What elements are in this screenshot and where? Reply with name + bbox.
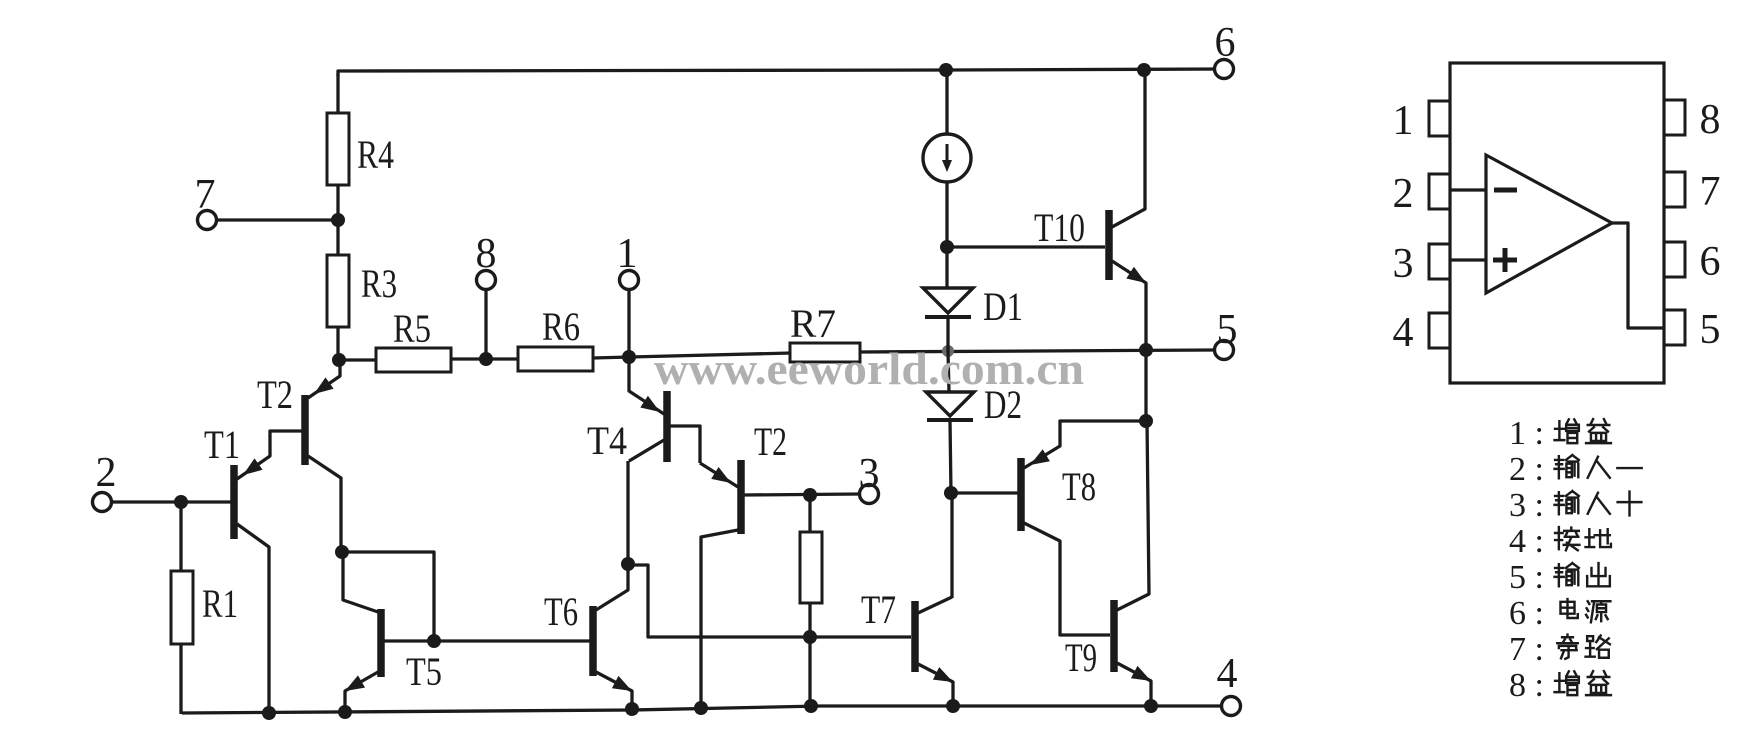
transistor T8 bar bbox=[1017, 458, 1025, 531]
wire mid rail segment B bbox=[451, 357, 519, 360]
wire T8 base bbox=[951, 491, 1018, 494]
svg-text:R6: R6 bbox=[542, 304, 580, 349]
op-amp output wire bbox=[1612, 223, 1664, 328]
svg-text:6: 6 bbox=[1215, 20, 1236, 66]
node D1 / T10 base bbox=[940, 240, 954, 254]
transistor T7 emitter bbox=[918, 664, 953, 707]
node T8 emitter / output rail bbox=[1139, 414, 1153, 428]
node R2 / T7 base line bbox=[803, 630, 817, 644]
label T9 bbox=[1065, 635, 1097, 680]
terminal 7 wire bbox=[216, 218, 338, 221]
label T1 bbox=[204, 422, 240, 467]
svg-text:R5: R5 bbox=[393, 306, 431, 351]
label T8 bbox=[1062, 464, 1096, 509]
node top rail / current source bbox=[939, 63, 953, 77]
IC pin 3 label bbox=[1393, 241, 1414, 287]
transistor T2 emitter bbox=[308, 360, 340, 398]
IC pin 6 tab bbox=[1664, 242, 1685, 277]
node ground/T5 emitter bbox=[338, 705, 352, 719]
svg-text:T6: T6 bbox=[544, 589, 578, 634]
IC pin 4 label bbox=[1393, 310, 1414, 356]
transistor T9 emitter bbox=[1117, 663, 1151, 707]
wire mid rail segment A bbox=[339, 358, 377, 361]
node terminal3 / R2 bbox=[803, 488, 817, 502]
svg-text:4: 4 bbox=[1217, 651, 1238, 697]
svg-text:7 :: 7 : bbox=[1509, 631, 1544, 668]
node top rail / T10 collector bbox=[1137, 63, 1151, 77]
IC pin 1 tab bbox=[1429, 101, 1450, 136]
resistor R2 (unlabeled) bbox=[800, 532, 822, 603]
op-amp inverting input lead bbox=[1450, 188, 1486, 191]
svg-text:T5: T5 bbox=[406, 649, 442, 694]
IC pin 8 label bbox=[1700, 97, 1721, 143]
svg-text:8: 8 bbox=[476, 231, 497, 277]
svg-text:8: 8 bbox=[1700, 97, 1721, 143]
transistor T7 collector bbox=[918, 597, 952, 613]
legend line pin 4 bbox=[1509, 523, 1611, 560]
transistor T1 collector bbox=[237, 524, 269, 713]
label T6 bbox=[544, 589, 578, 634]
wire terminal 1 stub bbox=[627, 289, 630, 357]
op-amp triangle bbox=[1486, 155, 1612, 293]
wire T5-T6 base link bbox=[384, 639, 590, 642]
transistor T2 (second) emitter bbox=[700, 463, 738, 487]
label R5 bbox=[393, 306, 431, 351]
svg-text:3: 3 bbox=[1393, 241, 1414, 287]
legend line pin 3 bbox=[1509, 487, 1641, 524]
label T5 bbox=[406, 649, 442, 694]
node T2 collector / T5 bbox=[335, 545, 349, 559]
label D1 bbox=[983, 284, 1023, 329]
svg-text:T2: T2 bbox=[257, 372, 293, 417]
transistor T6 collector bbox=[596, 565, 628, 610]
svg-text:7: 7 bbox=[195, 172, 216, 218]
wire D1 to mid rail bbox=[946, 317, 949, 352]
transistor T10 bar bbox=[1105, 210, 1113, 280]
label 5 bbox=[1217, 307, 1238, 353]
label T2 (second) bbox=[754, 419, 787, 464]
node T5 base bbox=[427, 634, 441, 648]
terminal 1 circle bbox=[620, 271, 639, 290]
transistor T10 emitter bbox=[1112, 261, 1146, 350]
transistor T2 (second) collector bbox=[701, 530, 738, 708]
transistor T10 collector bbox=[1112, 70, 1145, 227]
label R1 bbox=[202, 581, 238, 626]
legend line pin 7 bbox=[1509, 631, 1610, 668]
wire R2 top lead bbox=[808, 495, 811, 533]
label 2 bbox=[96, 450, 117, 496]
wire node to D1 bbox=[945, 247, 948, 289]
label 3 bbox=[859, 451, 880, 497]
wire mid rail to D2 bbox=[948, 351, 949, 392]
svg-text:4: 4 bbox=[1393, 310, 1414, 356]
wire R1 top lead bbox=[179, 502, 182, 572]
svg-text:3 :: 3 : bbox=[1509, 487, 1544, 524]
svg-text:T2: T2 bbox=[754, 419, 787, 464]
wire bottom ground rail bbox=[182, 706, 1222, 713]
label T7 bbox=[861, 587, 896, 632]
wire top rail to R4 bbox=[336, 74, 339, 114]
svg-text:1: 1 bbox=[1393, 98, 1414, 144]
legend line pin 8 bbox=[1509, 667, 1611, 704]
node mid rail / diode string bbox=[942, 345, 954, 357]
wire R3 to mid rail bbox=[336, 327, 339, 361]
transistor T6 bar bbox=[589, 606, 597, 676]
legend line pin 2 bbox=[1509, 451, 1642, 488]
transistor T1 emitter bbox=[237, 431, 302, 479]
IC pin 5 label bbox=[1700, 307, 1721, 353]
current source I1 arrow bbox=[942, 144, 952, 172]
label 7 bbox=[195, 172, 216, 218]
wire T5 base jog bbox=[342, 552, 434, 641]
wire pin2 to T1 base bbox=[112, 500, 231, 503]
terminal 6 circle bbox=[1215, 60, 1234, 79]
terminal 3 circle bbox=[860, 485, 879, 504]
legend line pin 1 bbox=[1509, 415, 1611, 452]
wire T6 node jog to base line bbox=[628, 565, 911, 637]
IC pin 7 label bbox=[1700, 169, 1721, 215]
resistor R1 bbox=[171, 571, 193, 644]
resistor R4 bbox=[327, 113, 349, 185]
transistor T6 emitter bbox=[596, 672, 632, 709]
diode D1 bbox=[923, 288, 973, 317]
label T2 bbox=[257, 372, 293, 417]
node ground/T1 collector bbox=[262, 706, 276, 720]
transistor T7 bar bbox=[911, 601, 919, 672]
label 1 bbox=[617, 231, 638, 277]
label 8 bbox=[476, 231, 497, 277]
wire D2 to T8 base node bbox=[950, 420, 951, 494]
svg-text:T9: T9 bbox=[1065, 635, 1097, 680]
transistor T2 (second) bar bbox=[737, 460, 745, 534]
node pin2/R1 bbox=[174, 495, 188, 509]
IC pin 7 tab bbox=[1664, 172, 1685, 207]
svg-text:T4: T4 bbox=[587, 418, 627, 463]
svg-text:T7: T7 bbox=[861, 587, 896, 632]
label R3 bbox=[361, 261, 397, 306]
IC package body bbox=[1450, 63, 1664, 383]
label 4 bbox=[1217, 651, 1238, 697]
transistor T1 bar bbox=[230, 465, 238, 539]
op-amp non-inverting input lead bbox=[1450, 258, 1486, 261]
resistor R7 bbox=[790, 343, 860, 362]
terminal 8 circle bbox=[477, 271, 496, 290]
IC pin 1 label bbox=[1393, 98, 1414, 144]
transistor T4 bar bbox=[663, 391, 671, 462]
wire R1 bottom lead bbox=[179, 644, 182, 714]
wire T7 collector to T8 base node bbox=[950, 494, 953, 598]
svg-text:5 :: 5 : bbox=[1509, 559, 1544, 596]
node T8 base / T7 collector bbox=[944, 486, 958, 500]
transistor T4 emitter bbox=[629, 357, 664, 414]
svg-text:7: 7 bbox=[1700, 169, 1721, 215]
transistor T5 bar bbox=[377, 609, 385, 677]
transistor T4 collector bbox=[629, 440, 664, 461]
node R3/R5/T2 emitter bbox=[332, 353, 346, 367]
wire top rail to current source bbox=[945, 70, 948, 135]
wire R2 bottom lead bbox=[808, 603, 811, 707]
label R6 bbox=[542, 304, 580, 349]
node junction at R4/R3/pin7 bbox=[331, 213, 345, 227]
svg-text:R4: R4 bbox=[357, 132, 394, 177]
transistor T2 collector bbox=[308, 456, 341, 552]
legend line pin 6 bbox=[1509, 595, 1610, 632]
label T4 bbox=[587, 418, 627, 463]
svg-text:T10: T10 bbox=[1034, 205, 1085, 250]
label R7 bbox=[790, 301, 836, 346]
IC pin 5 tab bbox=[1664, 310, 1685, 345]
svg-text:1: 1 bbox=[617, 231, 638, 277]
label T10 bbox=[1034, 205, 1085, 250]
transistor T8 emitter bbox=[1024, 421, 1146, 468]
svg-text:D1: D1 bbox=[983, 284, 1023, 329]
node pin8 bbox=[479, 352, 493, 366]
wire output rail bbox=[1144, 350, 1147, 421]
resistor R6 bbox=[518, 347, 593, 371]
wire terminal 8 stub bbox=[484, 289, 487, 359]
terminal 2 circle bbox=[93, 493, 112, 512]
svg-text:6: 6 bbox=[1700, 239, 1721, 285]
IC pin 6 label bbox=[1700, 239, 1721, 285]
svg-text:4 :: 4 : bbox=[1509, 523, 1544, 560]
watermark bbox=[654, 343, 1084, 394]
node pin1 bbox=[622, 350, 636, 364]
svg-text:2 :: 2 : bbox=[1509, 451, 1544, 488]
current source I1 circle bbox=[923, 134, 971, 182]
wire T4 collector drop bbox=[626, 461, 629, 565]
IC pin 3 tab bbox=[1429, 244, 1450, 279]
transistor T2 bar bbox=[301, 395, 309, 465]
node T4/T6 collectors bbox=[621, 557, 635, 571]
transistor T8 collector bbox=[1024, 523, 1110, 635]
label D2 bbox=[984, 382, 1022, 427]
wire T10 base bbox=[947, 245, 1105, 248]
wire mid rail segment D bbox=[629, 353, 791, 357]
IC pin 2 label bbox=[1393, 171, 1414, 217]
svg-text:6 :: 6 : bbox=[1509, 595, 1544, 632]
svg-text:5: 5 bbox=[1217, 307, 1238, 353]
svg-text:R1: R1 bbox=[202, 581, 238, 626]
svg-text:T8: T8 bbox=[1062, 464, 1096, 509]
transistor T2 (second) base wire bbox=[744, 494, 860, 495]
wire current source to node bbox=[945, 182, 948, 248]
svg-text:www.eeworld.com.cn: www.eeworld.com.cn bbox=[654, 343, 1084, 394]
node ground/T9 emitter bbox=[1144, 699, 1158, 713]
node ground/R2 leg bbox=[804, 699, 818, 713]
wire T4 base bbox=[667, 426, 700, 463]
terminal 5 circle bbox=[1215, 341, 1234, 360]
op-amp minus sign bbox=[1494, 188, 1517, 193]
node ground/T6 emitter bbox=[625, 702, 639, 716]
transistor T5 collector bbox=[343, 552, 378, 612]
legend line pin 5 bbox=[1509, 559, 1610, 596]
svg-text:3: 3 bbox=[859, 451, 880, 497]
svg-text:5: 5 bbox=[1700, 307, 1721, 353]
node ground/T2 collector bbox=[694, 701, 708, 715]
svg-text:R7: R7 bbox=[790, 301, 836, 346]
svg-text:2: 2 bbox=[96, 450, 117, 496]
label R4 bbox=[357, 132, 394, 177]
diode D2 bbox=[926, 392, 974, 420]
node ground/T7 emitter bbox=[946, 699, 960, 713]
wire mid rail segment E bbox=[860, 350, 1214, 352]
svg-text:8 :: 8 : bbox=[1509, 667, 1544, 704]
IC pin 4 tab bbox=[1429, 313, 1450, 348]
terminal 7 circle bbox=[198, 211, 217, 230]
node mid rail / output rail bbox=[1139, 343, 1153, 357]
wire mid rail segment C bbox=[593, 357, 630, 358]
op-amp plus sign bbox=[1493, 248, 1517, 272]
svg-text:1 :: 1 : bbox=[1509, 415, 1544, 452]
terminal 4 circle bbox=[1222, 697, 1241, 716]
transistor T9 collector bbox=[1117, 421, 1149, 610]
resistor R3 bbox=[327, 255, 349, 327]
IC pin 8 tab bbox=[1664, 100, 1685, 135]
svg-text:2: 2 bbox=[1393, 171, 1414, 217]
svg-text:T1: T1 bbox=[204, 422, 240, 467]
resistor R5 bbox=[376, 348, 451, 372]
label 6 bbox=[1215, 20, 1236, 66]
transistor T9 bar bbox=[1110, 600, 1118, 672]
wire R4 to R3 bbox=[336, 185, 339, 256]
svg-text:R3: R3 bbox=[361, 261, 397, 306]
wire top supply rail bbox=[338, 69, 1224, 76]
transistor T5 emitter bbox=[345, 672, 378, 712]
IC pin 2 tab bbox=[1429, 174, 1450, 209]
